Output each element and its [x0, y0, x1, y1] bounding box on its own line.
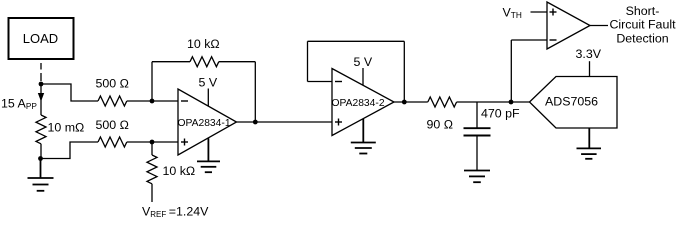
comparator U3 minus sign: [550, 39, 557, 41]
svg-text:500 Ω: 500 Ω: [96, 118, 129, 132]
svg-text:LOAD: LOAD: [23, 31, 58, 46]
supply 3.3V for ADC: [589, 61, 591, 76]
op-amp U1 OPA2834-1 triangle: [178, 89, 237, 155]
wire R4 to VREF: [151, 184, 153, 202]
svg-text:470 pF: 470 pF: [481, 106, 520, 120]
wire node A to R1: [41, 84, 98, 101]
wire U2 feedback down to inverting input: [307, 41, 309, 81]
wire U2 feedback up: [403, 41, 405, 102]
wire node C down to R4: [151, 142, 153, 155]
ADC U4 ADS7056 body: [530, 77, 618, 129]
wire node A to shunt: [40, 84, 42, 115]
svg-text:OPA2834-2: OPA2834-2: [332, 98, 385, 109]
op-amp U2 plus sign: [335, 119, 342, 126]
svg-text:5 V: 5 V: [354, 55, 373, 69]
svg-text:Detection: Detection: [616, 31, 668, 45]
svg-text:3.3V: 3.3V: [576, 47, 602, 61]
svg-text:10 kΩ: 10 kΩ: [187, 37, 220, 51]
wire U2 feedback to inverting input: [308, 81, 333, 83]
node F junction dot U2 output: [402, 100, 407, 105]
ground for U2: [351, 119, 376, 154]
wire feedback top right: [219, 61, 256, 63]
wire node B to R2: [41, 142, 99, 159]
op-amp U1 minus sign: [181, 100, 188, 102]
wire shunt to node B: [40, 144, 42, 159]
svg-text:Short-: Short-: [626, 4, 660, 18]
capacitor C1 470 pF: [464, 102, 491, 171]
wire feedback top left: [152, 61, 190, 63]
current arrow 15 APP: [38, 93, 44, 102]
svg-text:15 APP: 15 APP: [1, 96, 37, 111]
node G junction dot ADC input: [509, 100, 514, 105]
svg-text:5 V: 5 V: [199, 76, 218, 90]
wire feedback right leg: [254, 62, 256, 122]
wire R1 to inverting input: [127, 100, 178, 102]
wire U2 output: [394, 101, 428, 103]
op-amp U1 plus sign: [181, 139, 188, 146]
wire to comparator inverting input: [511, 39, 547, 41]
ground for U1: [197, 138, 220, 172]
ground for shunt: [28, 159, 54, 191]
node A junction dot: [39, 82, 44, 87]
wire comparator output: [590, 25, 608, 27]
ground for C1: [464, 171, 490, 183]
node E junction dot on U1 output: [253, 120, 258, 125]
svg-text:500 Ω: 500 Ω: [96, 77, 129, 91]
resistor R2 500 Ohm: [98, 137, 127, 147]
comparator U3 plus sign: [550, 9, 557, 16]
svg-text:ADS7056: ADS7056: [545, 95, 598, 109]
wire VTH to comparator: [531, 11, 548, 13]
svg-text:OPA2834-1: OPA2834-1: [178, 118, 231, 129]
node C junction dot: [150, 140, 155, 145]
op-amp U2 minus sign: [335, 81, 342, 83]
ground for ADC: [577, 128, 602, 159]
svg-text:10 kΩ: 10 kΩ: [163, 164, 196, 178]
supply 5 V for U1: [207, 89, 209, 107]
wire dashed from LOAD to node A: [40, 63, 42, 81]
wire node G up to comparator: [510, 40, 512, 102]
svg-text:VREF=1.24V: VREF=1.24V: [142, 204, 209, 219]
wire feedback left leg: [151, 62, 153, 101]
svg-text:90 Ω: 90 Ω: [427, 117, 454, 131]
resistor R4 10 kOhm to VREF: [147, 155, 157, 184]
svg-text:10 mΩ: 10 mΩ: [48, 120, 85, 134]
supply 5 V for U2: [362, 68, 364, 85]
resistor R shunt 10 mOhm: [36, 115, 46, 144]
wire R5 to cap node: [457, 101, 530, 103]
comparator U3 triangle: [547, 2, 590, 49]
load box LOAD: [9, 18, 74, 59]
wire R2 to noninverting input: [127, 141, 178, 143]
resistor R5 90 Ohm: [428, 97, 457, 107]
resistor R1 500 Ohm: [98, 96, 127, 106]
node D junction dot feedback tap: [150, 99, 155, 104]
resistor R3 10 kOhm feedback: [190, 57, 219, 67]
op-amp U2 OPA2834-2 triangle: [332, 69, 394, 136]
wire U1 output to U2 noninverting input: [237, 121, 333, 123]
node B junction dot: [38, 156, 43, 161]
wire U2 feedback top: [308, 40, 405, 42]
svg-text:VTH: VTH: [503, 6, 522, 21]
svg-text:Circuit Fault: Circuit Fault: [609, 18, 676, 32]
